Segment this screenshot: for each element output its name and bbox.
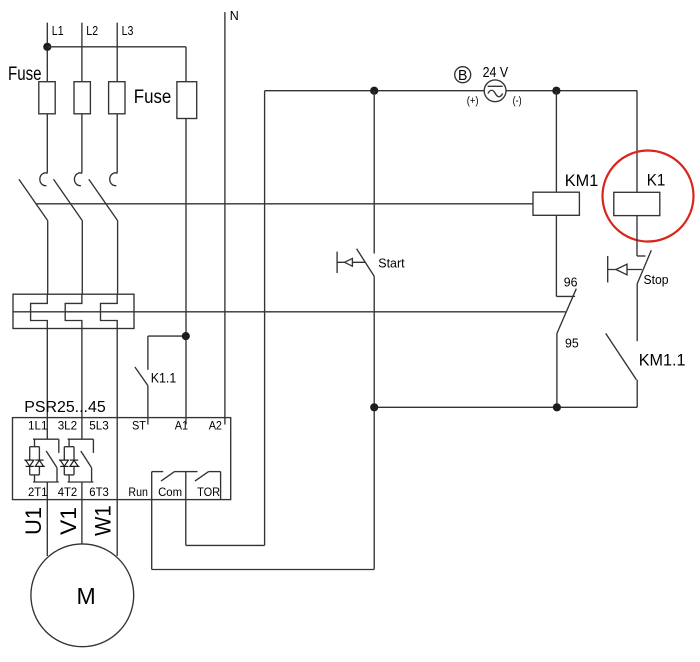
svg-text:K1: K1 bbox=[647, 171, 666, 190]
fuse F2 bbox=[74, 82, 90, 114]
svg-text:(+): (+) bbox=[467, 95, 479, 107]
contactor KM1 main contact pole 3 bbox=[89, 173, 118, 294]
fuse F1 bbox=[8, 63, 55, 114]
auxiliary contact K1.1 NO bbox=[135, 367, 177, 386]
relay output contact Run-Com bbox=[152, 472, 186, 482]
red highlight circle around K1 bbox=[603, 151, 694, 242]
wire start branch upper bbox=[373, 91, 375, 254]
svg-text:KM1: KM1 bbox=[565, 171, 599, 190]
svg-text:95: 95 bbox=[565, 335, 579, 350]
pushbutton Stop NC contact bbox=[608, 250, 669, 287]
svg-text:Fuse: Fuse bbox=[134, 86, 172, 108]
svg-text:PSR25...45: PSR25...45 bbox=[24, 399, 106, 416]
svg-text:6T3: 6T3 bbox=[89, 485, 109, 499]
svg-text:Stop: Stop bbox=[644, 272, 669, 287]
wire L1 bbox=[47, 23, 63, 82]
pushbutton Start NO contact bbox=[337, 249, 405, 276]
overload heater element phase 2 bbox=[65, 294, 82, 328]
svg-text:KM1.1: KM1.1 bbox=[639, 351, 686, 370]
svg-text:W1: W1 bbox=[91, 505, 116, 536]
control bus lower bbox=[374, 406, 637, 408]
wire fuse F2 to contact bbox=[81, 114, 83, 173]
svg-text:Run: Run bbox=[128, 485, 148, 499]
svg-text:M: M bbox=[77, 583, 96, 609]
wire phase 3 through PSR bbox=[116, 418, 118, 500]
wire phase 2 overload to PSR bbox=[81, 329, 83, 418]
wire fuse F1 to contact bbox=[46, 114, 48, 173]
svg-text:TOR: TOR bbox=[197, 485, 220, 499]
node K1.1 branch on A1 wire bbox=[182, 332, 190, 340]
wire Run to control bus riser bbox=[152, 569, 375, 571]
svg-text:A2: A2 bbox=[209, 419, 223, 433]
wire K1.1 branch upper bbox=[147, 336, 149, 370]
svg-text:Fuse: Fuse bbox=[8, 63, 42, 85]
node contact 95 on control bus bbox=[553, 403, 561, 411]
wire Run terminal lower bbox=[151, 472, 153, 570]
wire V1 motor lead bbox=[56, 500, 82, 544]
thyristor branch phase 2 bbox=[64, 418, 93, 500]
thyristor pair symbols phase 1 bbox=[24, 460, 45, 466]
terminal label A2 bbox=[209, 418, 225, 433]
wire phase 3 overload to PSR bbox=[116, 329, 118, 418]
bypass contact phase 2 bbox=[81, 439, 94, 482]
overload trip contact 95-96 NC bbox=[556, 274, 578, 350]
wire KM1.1 to control bus bbox=[636, 380, 638, 408]
motor M bbox=[31, 544, 134, 647]
wire Com to control branch bbox=[186, 544, 265, 546]
fuse F4 bbox=[134, 82, 197, 119]
svg-text:B: B bbox=[458, 68, 467, 84]
svg-text:Com: Com bbox=[158, 485, 182, 499]
overload relay block bbox=[13, 294, 134, 328]
wire K1.1 branch horizontal bbox=[148, 335, 186, 337]
wire branch L1 to fuse F4 bbox=[47, 46, 186, 48]
terminal label ST bbox=[132, 418, 148, 433]
svg-text:5L3: 5L3 bbox=[89, 419, 109, 433]
wire start branch lower bbox=[373, 276, 375, 569]
svg-text:1L1: 1L1 bbox=[28, 419, 48, 433]
wire contact 95 to control bus bbox=[556, 334, 558, 408]
svg-text:3L2: 3L2 bbox=[58, 419, 78, 433]
svg-text:N: N bbox=[230, 9, 239, 23]
node junction L1 to fuse4 branch bbox=[43, 43, 51, 51]
coil KM1 bbox=[533, 171, 598, 215]
svg-text:V1: V1 bbox=[56, 507, 81, 535]
wire L3 bbox=[117, 23, 133, 82]
power supply B 24 V bbox=[455, 64, 522, 107]
top bus 24V bbox=[265, 90, 638, 92]
auxiliary contact KM1.1 NO bbox=[606, 333, 686, 379]
svg-text:2T1: 2T1 bbox=[28, 485, 48, 499]
wire fuse F4 top lead bbox=[185, 47, 187, 82]
svg-text:K1.1: K1.1 bbox=[151, 370, 177, 386]
wire control branch left bbox=[264, 91, 266, 546]
svg-text:U1: U1 bbox=[21, 507, 46, 535]
wire K1 coil to stop bbox=[636, 216, 638, 256]
wire Com terminal lower bbox=[185, 472, 187, 546]
wire mechanical linkage KM1 coil to main contacts bbox=[36, 203, 533, 205]
fuse F3 bbox=[109, 82, 125, 114]
wire overload trip linkage to contact 95-96 bbox=[13, 311, 566, 313]
wire N bbox=[225, 9, 239, 417]
node start/run riser on control bus bbox=[370, 403, 378, 411]
wire K1.1 to ST terminal bbox=[147, 386, 149, 418]
svg-text:ST: ST bbox=[132, 419, 147, 433]
node KM1 branch on top bus bbox=[552, 87, 560, 95]
wire W1 motor lead bbox=[91, 500, 118, 556]
wire KM1 coil to contact 96 bbox=[555, 215, 557, 296]
wire L2 bbox=[82, 23, 98, 82]
overload heater element phase 3 bbox=[101, 294, 118, 328]
overload heater element phase 1 bbox=[31, 294, 48, 328]
wire stop to KM1.1 bbox=[636, 284, 638, 342]
contactor KM1 main contact pole 1 bbox=[19, 173, 48, 294]
svg-text:Start: Start bbox=[378, 256, 405, 271]
wire U1 motor lead bbox=[21, 500, 47, 556]
contactor KM1 main contact pole 2 bbox=[54, 173, 83, 294]
svg-text:96: 96 bbox=[564, 274, 578, 289]
wire phase 1 overload to PSR bbox=[46, 329, 48, 418]
wire K1 coil branch bbox=[636, 91, 638, 193]
thyristor branch phase 1 bbox=[30, 418, 59, 500]
wire TOR terminal bbox=[220, 472, 222, 500]
wire fuse F4 to A1 bbox=[185, 119, 187, 418]
relay output contact Com-TOR bbox=[186, 472, 221, 482]
svg-text:24 V: 24 V bbox=[483, 64, 509, 81]
wire KM1 coil branch bbox=[555, 91, 557, 193]
svg-text:L2: L2 bbox=[86, 23, 98, 38]
svg-text:4T2: 4T2 bbox=[58, 485, 78, 499]
node start branch on top bus bbox=[370, 87, 378, 95]
bypass contact phase 1 bbox=[46, 439, 59, 482]
coil K1 bbox=[614, 171, 666, 216]
svg-text:L3: L3 bbox=[122, 23, 134, 38]
svg-text:L1: L1 bbox=[52, 23, 64, 38]
terminal label A1 bbox=[175, 418, 189, 433]
wire fuse F3 to contact bbox=[116, 114, 118, 173]
svg-text:(-): (-) bbox=[513, 95, 522, 107]
thyristor pair symbols phase 2 bbox=[59, 460, 80, 466]
softstarter PSR block bbox=[13, 399, 231, 500]
